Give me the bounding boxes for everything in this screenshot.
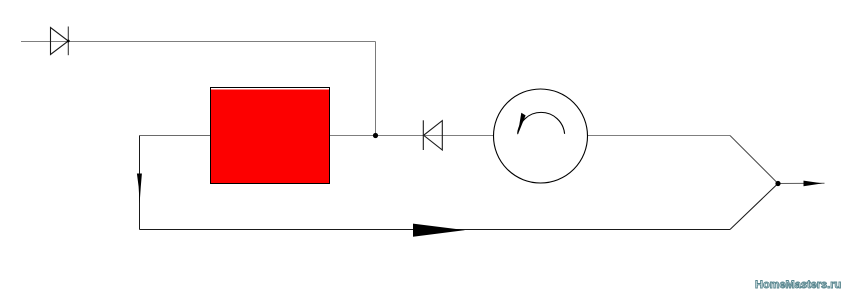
check valve V1 seat bar [67, 27, 69, 56]
flow arrow down (left return) [137, 174, 142, 204]
wire left return vertical [139, 136, 141, 230]
wire top horizontal [21, 41, 376, 43]
wire boiler left stub [140, 135, 211, 137]
flow arrow right (bottom return) [413, 224, 465, 237]
wire boiler to pump run [330, 135, 494, 137]
wire top-right diagonal [730, 136, 778, 184]
node A junction dot [373, 133, 378, 138]
boiler K1 red fill [211, 90, 329, 184]
wire output stub [778, 182, 825, 184]
pump P1 body circle [494, 89, 588, 183]
output flow arrowhead [804, 181, 823, 187]
check valve V1 apex dot [67, 40, 70, 43]
wire vertical drop to node A [375, 42, 377, 136]
pump P1 rotation arc [518, 112, 565, 133]
pump P1 rotation arrowhead [518, 113, 526, 135]
check valve V2 triangle (points left) [424, 121, 443, 150]
check valve V1 triangle (top left) [51, 28, 69, 55]
wire pump to right corner [588, 135, 731, 137]
wire bottom return horizontal [140, 229, 731, 231]
wire bottom-right diagonal [730, 184, 778, 230]
watermark HomeMasters.ru [755, 279, 847, 291]
node B junction dot [775, 181, 780, 186]
boiler K1 body outline [211, 88, 330, 184]
check valve V2 seat bar [422, 120, 424, 150]
